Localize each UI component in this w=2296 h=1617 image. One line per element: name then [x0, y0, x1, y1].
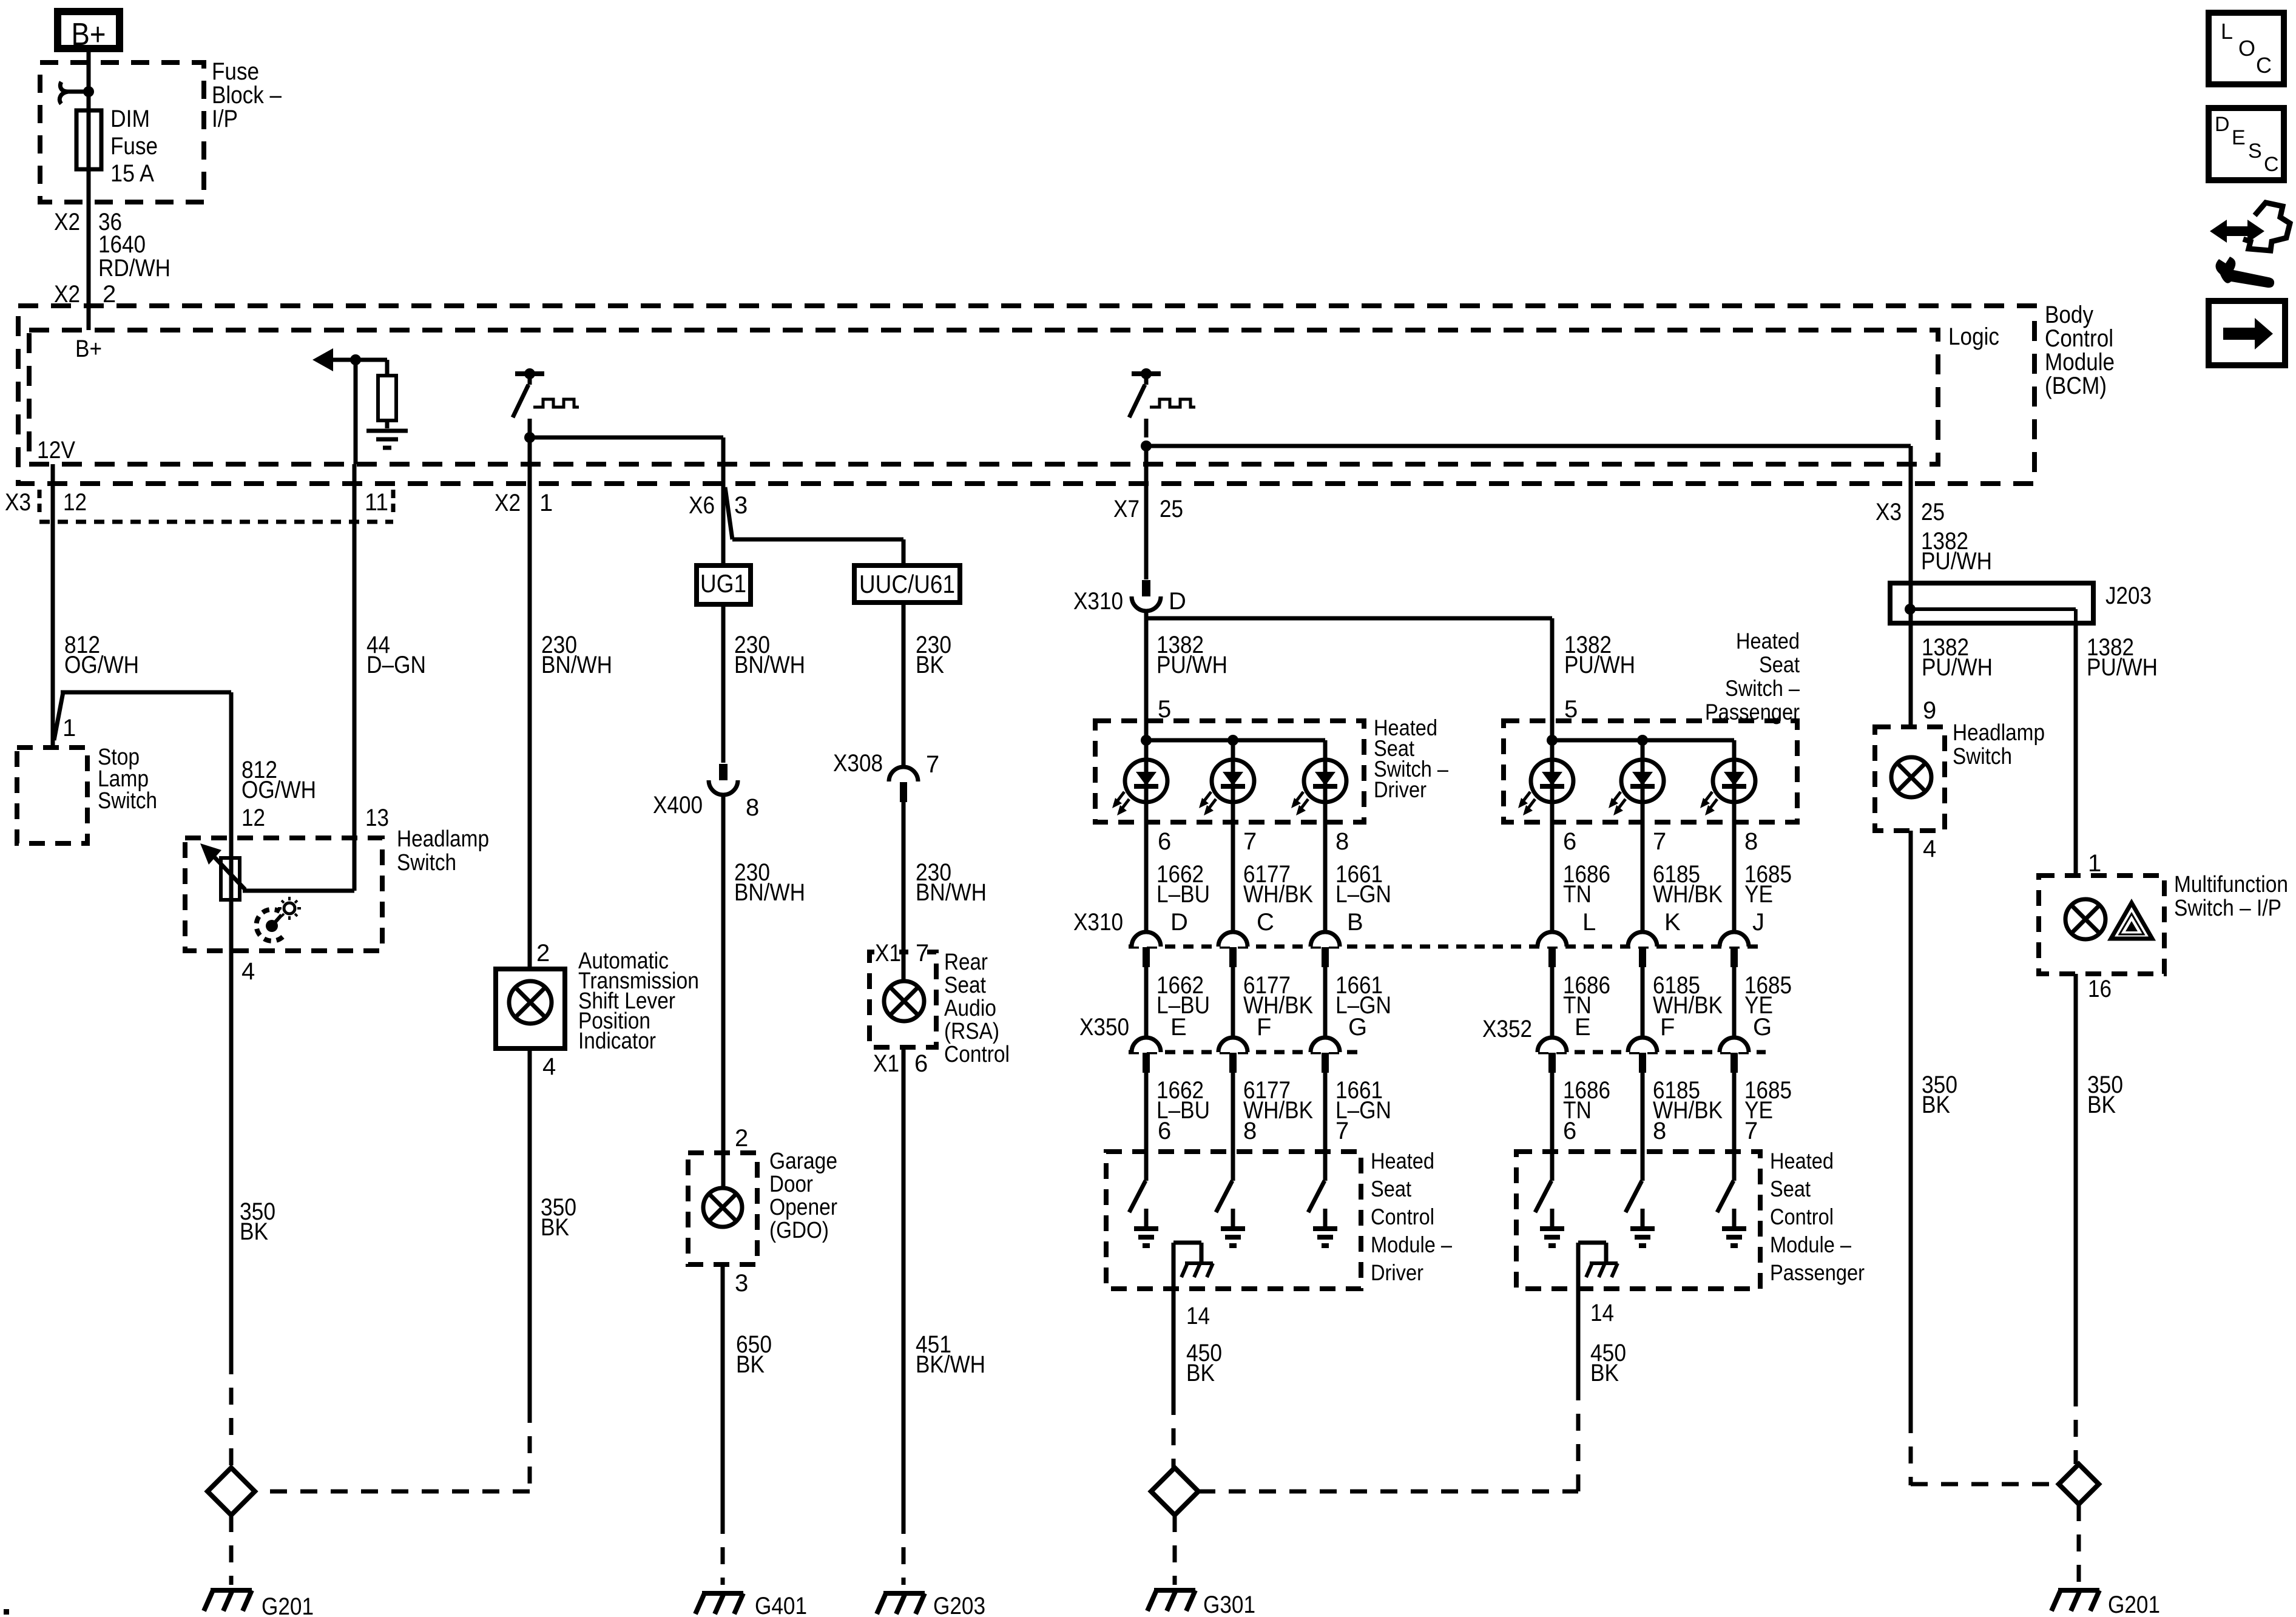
connector X352-G [1720, 1038, 1749, 1073]
connector X310 row labels pass [1582, 909, 1764, 936]
wires X310 to X352 [1552, 967, 1734, 1038]
splice S201-left diamond [208, 1468, 255, 1515]
svg-text:X310: X310 [1073, 588, 1123, 615]
connector X310-C [1218, 932, 1248, 967]
connector X350-F [1218, 1038, 1248, 1073]
in-line connector X310 D [1073, 580, 1186, 615]
svg-text:8: 8 [1243, 1118, 1257, 1144]
wire label 1640 RD/WH [98, 231, 171, 282]
pin label 16 [2088, 976, 2112, 1002]
svg-text:6: 6 [1563, 828, 1576, 855]
wire label 230 BK [916, 632, 951, 678]
LED driver 1 [1112, 760, 1167, 815]
svg-text:L: L [2221, 19, 2233, 44]
svg-text:Headlamp: Headlamp [397, 826, 489, 852]
connector X352-F [1628, 1038, 1657, 1073]
connector X310 row labels [1073, 909, 1363, 936]
svg-text:15 A: 15 A [110, 160, 154, 187]
wire bus in passenger switch [1552, 721, 1734, 760]
svg-text:7: 7 [1744, 1118, 1758, 1144]
resistor inside BCM [378, 360, 396, 428]
wire through pot [229, 838, 234, 951]
label Body Control Module (BCM) [2045, 302, 2115, 399]
Headlamp Switch illumination dashed box [1875, 727, 1945, 831]
label Heated Seat Switch - Driver [1374, 715, 1448, 802]
svg-text:Control: Control [1371, 1204, 1434, 1229]
pin label 14 pass [1590, 1300, 1614, 1326]
ground G203 [877, 1593, 985, 1617]
svg-text:BK: BK [240, 1218, 268, 1245]
junction node X7-25 [1141, 441, 1152, 451]
wire pin 11 to dimmer wiper [353, 464, 357, 891]
wire label 1686 TN c [1563, 1077, 1610, 1124]
label ATSLPI [578, 948, 699, 1054]
splice pack J203 [1890, 582, 2152, 623]
svg-text:Switch –: Switch – [1725, 676, 1800, 701]
svg-text:E: E [2232, 126, 2246, 149]
svg-text:7: 7 [926, 751, 939, 778]
wire X400 to GDO [721, 795, 726, 1189]
lamp in RSA [884, 981, 924, 1021]
option box UUC/U61 [854, 565, 960, 603]
wire label 812 OG/WH [64, 632, 139, 678]
wire fuse to BCM [87, 169, 91, 330]
pin label 4 (ATSLPI) [542, 1053, 556, 1080]
wire bus to X3-25 pin [1146, 446, 1911, 484]
svg-text:G201: G201 [262, 1593, 314, 1617]
Heated Seat Switch - Driver dashed box [1095, 721, 1364, 822]
pin label 1 mfs [2088, 850, 2101, 877]
Heated Seat Control Module - Passenger dashed box [1516, 1152, 1760, 1289]
wire UG1 to X400 [721, 607, 726, 763]
svg-text:Heated: Heated [1770, 1149, 1834, 1173]
connector X350-G [1311, 1038, 1340, 1073]
svg-text:BK: BK [1922, 1092, 1950, 1118]
svg-text:1640: 1640 [98, 231, 146, 258]
Headlamp Switch dashed box [185, 838, 382, 951]
pin label 3 (GDO) [735, 1270, 748, 1297]
svg-text:12V: 12V [37, 437, 75, 464]
pin labels 6 7 8 drv [1158, 828, 1349, 855]
Garage Door Opener dashed box [688, 1153, 757, 1264]
wire label 1661 L-GN c [1335, 1077, 1391, 1124]
pin label 12 [241, 805, 265, 831]
junction dots driver switch [1141, 735, 1238, 746]
pin label X2 1 [495, 490, 553, 516]
wire headlamp switch to splice right [1909, 831, 1913, 1485]
svg-text:7: 7 [1653, 828, 1666, 855]
svg-text:OG/WH: OG/WH [64, 652, 139, 678]
dimmer dial icon [256, 897, 301, 941]
pin label 4 hls [1923, 836, 1936, 862]
B+ battery feed box [58, 12, 120, 52]
svg-text:Indicator: Indicator [578, 1028, 656, 1054]
DESC icon box [2209, 108, 2284, 180]
pin label X1 7 [874, 940, 929, 967]
ground G401 [695, 1593, 807, 1617]
BCM Logic inner dashed box [29, 330, 1938, 464]
wire label 1686 TN a [1563, 861, 1610, 908]
wire label 1661 L-GN a [1335, 861, 1391, 908]
svg-text:X3: X3 [5, 489, 31, 516]
svg-text:Body: Body [2045, 302, 2093, 328]
wire label 44 D-GN [366, 632, 426, 678]
wire X308 to RSA [902, 802, 906, 981]
svg-text:6: 6 [1158, 828, 1171, 855]
wire label 1382 PU/WH hls [1922, 634, 1993, 681]
hazard triangle icon [2111, 903, 2152, 939]
pin label 14 drv [1186, 1303, 1210, 1329]
module drv internal ground [1173, 1243, 1213, 1277]
svg-text:X1: X1 [875, 940, 901, 967]
wire label 650 BK [736, 1331, 772, 1378]
connector X350 row labels [1079, 1014, 1367, 1041]
svg-text:B+: B+ [72, 17, 106, 52]
svg-text:TN: TN [1563, 881, 1592, 908]
svg-text:Control: Control [944, 1042, 1010, 1067]
svg-text:1: 1 [2088, 850, 2101, 877]
lamp in ATSLPI [509, 981, 552, 1024]
svg-text:G203: G203 [933, 1593, 985, 1617]
wire X3-25 to J203 [1909, 484, 1913, 583]
dashed wire to right diamond [1911, 1482, 2059, 1487]
svg-text:Seat: Seat [1770, 1176, 1811, 1201]
svg-text:X7: X7 [1113, 496, 1140, 522]
wire ATSLPI to splice [528, 1048, 532, 1484]
wire X310-D down [1144, 612, 1149, 721]
svg-text:J: J [1752, 909, 1764, 936]
svg-text:RD/WH: RD/WH [98, 255, 171, 282]
pin label 5 drv [1158, 696, 1171, 723]
svg-text:G401: G401 [755, 1593, 807, 1617]
svg-text:12: 12 [241, 805, 265, 831]
svg-text:WH/BK: WH/BK [1243, 881, 1313, 908]
connector X310-B [1311, 932, 1340, 967]
pin label X2 2 [54, 281, 116, 308]
splice S301 diamond [1151, 1468, 1198, 1515]
wire RSA to ground [902, 1047, 906, 1585]
svg-text:D: D [1170, 909, 1188, 936]
svg-text:9: 9 [1923, 697, 1936, 724]
pin label 9 [1923, 697, 1936, 724]
svg-text:Headlamp: Headlamp [1953, 720, 2045, 746]
svg-text:X2: X2 [495, 490, 521, 516]
svg-text:C: C [1257, 909, 1274, 936]
svg-text:WH/BK: WH/BK [1653, 881, 1723, 908]
svg-text:3: 3 [734, 492, 748, 519]
connector X310-J [1720, 932, 1749, 967]
pin labels 6 7 8 pass [1563, 828, 1758, 855]
svg-text:12: 12 [63, 489, 87, 516]
svg-text:D: D [1169, 588, 1186, 615]
in-line connector X400 pin 8 [653, 764, 759, 821]
svg-text:Audio: Audio [944, 996, 996, 1021]
LOC icon box [2209, 13, 2284, 84]
wire X7-25 to X310-D [1144, 484, 1149, 579]
svg-text:X308: X308 [833, 750, 883, 777]
svg-text:PU/WH: PU/WH [1922, 654, 1993, 681]
svg-text:Logic: Logic [1948, 323, 1999, 350]
wire label 1662 L-BU a [1156, 861, 1210, 908]
svg-text:BK: BK [2087, 1092, 2116, 1118]
lamp in multifunction switch [2065, 899, 2105, 939]
wires LEDs to pins pass [1552, 802, 1734, 932]
svg-text:Switch: Switch [98, 788, 157, 814]
lamp in headlamp switch [1891, 757, 1931, 797]
wire label 230 BN/WH col3 [734, 632, 805, 678]
wire label 6185 WH/BK b [1653, 972, 1723, 1019]
wire label 350 BK col2 [541, 1194, 576, 1241]
svg-text:Switch – I/P: Switch – I/P [2174, 896, 2281, 921]
arrow output inside BCM [312, 348, 387, 371]
Heated Seat Switch - Passenger dashed box [1504, 721, 1797, 822]
wire label 350 BK [240, 1198, 275, 1245]
wire label 1382 PU/WH mfs [2087, 634, 2158, 681]
svg-text:BK: BK [736, 1351, 765, 1378]
wire label 812 OG/WH second [241, 757, 316, 803]
wire label 6177 WH/BK b [1243, 972, 1313, 1019]
svg-text:Module: Module [2045, 349, 2115, 376]
module pass internal ground [1578, 1243, 1618, 1277]
svg-text:BN/WH: BN/WH [916, 879, 987, 906]
svg-text:G: G [1753, 1014, 1772, 1041]
svg-text:(RSA): (RSA) [944, 1019, 999, 1044]
wire label 1382 PU/WH pass [1564, 632, 1635, 678]
svg-text:2: 2 [735, 1125, 748, 1152]
svg-text:1: 1 [539, 490, 553, 516]
pin labels 6 8 7 pass module [1563, 1118, 1758, 1144]
svg-text:D–GN: D–GN [366, 652, 426, 678]
fuse DIM 15A [76, 110, 101, 169]
svg-text:D: D [2215, 113, 2230, 136]
svg-text:Door: Door [769, 1172, 813, 1197]
wire J203 to headlamp switch [1909, 623, 1913, 727]
label Stop Lamp Switch [98, 744, 157, 814]
ground inside BCM [366, 431, 408, 448]
switch S2 in BCM (backlight output) [1129, 368, 1195, 437]
svg-text:F: F [1660, 1014, 1675, 1041]
label HSCM Driver [1371, 1149, 1452, 1285]
svg-text:WH/BK: WH/BK [1243, 992, 1313, 1019]
svg-text:X3: X3 [1876, 499, 1902, 525]
svg-text:OG/WH: OG/WH [241, 777, 316, 803]
junction dots passenger switch [1547, 735, 1648, 746]
wire label 1685 YE a [1744, 861, 1792, 908]
wire bus in driver switch [1146, 721, 1325, 760]
svg-text:Opener: Opener [769, 1195, 837, 1220]
svg-text:I/P: I/P [212, 106, 238, 132]
connector X310-K [1628, 932, 1657, 967]
svg-text:Module –: Module – [1770, 1232, 1851, 1257]
wire jog to stop lamp switch pin 1 [54, 692, 63, 740]
svg-text:BK: BK [1186, 1360, 1215, 1386]
Automatic Transmission Shift Lever Position Indicator box [496, 969, 565, 1048]
svg-text:4: 4 [542, 1053, 556, 1080]
label Logic [1948, 323, 1999, 350]
svg-text:Seat: Seat [944, 973, 986, 998]
svg-text:(GDO): (GDO) [769, 1218, 829, 1243]
svg-text:8: 8 [1335, 828, 1349, 855]
label HSCM Passenger [1770, 1149, 1865, 1285]
ground G201 left [204, 1590, 314, 1617]
wire J203 to multifunction [2074, 623, 2078, 876]
label Garage Door Opener (GDO) [769, 1149, 837, 1243]
Rear Seat Audio dashed box [869, 952, 936, 1047]
svg-text:6: 6 [914, 1050, 928, 1077]
dashed wire diamond to ground [229, 1515, 234, 1585]
wire module drv pin 14 [1172, 1243, 1176, 1468]
svg-text:B: B [1347, 909, 1363, 936]
svg-text:PU/WH: PU/WH [1921, 548, 1992, 575]
pin label 2 (ATSLPI) [536, 940, 550, 967]
pin label 13 [365, 805, 389, 831]
LED driver 2 [1199, 760, 1254, 815]
wire label 230 BN/WH col3b [734, 859, 805, 906]
wire label 230 BN/WH col4 [916, 859, 987, 906]
svg-text:BN/WH: BN/WH [734, 652, 805, 678]
pin labels 6 8 7 drv module [1158, 1118, 1349, 1144]
GoTo arrow icon box [2209, 301, 2285, 365]
wire label 1686 TN b [1563, 972, 1610, 1019]
svg-text:L–BU: L–BU [1156, 881, 1210, 908]
svg-text:6: 6 [1563, 1118, 1576, 1144]
svg-text:BK/WH: BK/WH [916, 1351, 985, 1378]
Stop Lamp Switch dashed box [17, 748, 87, 843]
svg-text:3: 3 [735, 1270, 748, 1297]
svg-text:Block –: Block – [212, 82, 282, 109]
wires LEDs to pins drv [1146, 802, 1325, 932]
lamp in GDO [703, 1188, 742, 1227]
junction node X2-1 [524, 432, 535, 443]
wire label 350 BK mfs [2087, 1072, 2123, 1118]
svg-text:BK: BK [1590, 1360, 1619, 1386]
svg-text:X1: X1 [873, 1050, 899, 1077]
LED passenger 3 [1700, 760, 1755, 815]
pin label 2 (GDO) [735, 1125, 748, 1152]
wire bus to X6 pin [530, 437, 723, 464]
wires X310 to X350 drv [1146, 967, 1325, 1038]
svg-text:PU/WH: PU/WH [1564, 652, 1635, 678]
wire node to pin 11 [354, 360, 358, 464]
svg-text:X400: X400 [653, 792, 703, 819]
node B+ label inside BCM [75, 336, 102, 362]
pin label X7 25 [1113, 496, 1183, 522]
svg-text:S: S [2248, 140, 2262, 163]
connector X350-E [1132, 1038, 1161, 1073]
svg-text:L: L [1582, 909, 1596, 936]
svg-text:BN/WH: BN/WH [734, 879, 805, 906]
svg-text:Heated: Heated [1736, 629, 1800, 653]
svg-text:2: 2 [103, 281, 116, 308]
wire branch X6-3 to UUC [725, 487, 903, 563]
svg-text:16: 16 [2088, 976, 2112, 1002]
svg-text:Seat: Seat [1759, 652, 1800, 677]
svg-text:Multifunction: Multifunction [2174, 872, 2288, 897]
svg-text:11: 11 [365, 489, 388, 516]
splice right diamond [2059, 1464, 2099, 1504]
svg-text:E: E [1170, 1014, 1187, 1041]
wire label 450 BK drv [1186, 1340, 1222, 1386]
svg-text:X310: X310 [1073, 909, 1123, 936]
svg-text:Fuse: Fuse [110, 133, 158, 160]
svg-text:F: F [1257, 1014, 1271, 1041]
pin label 11 [365, 489, 388, 516]
svg-text:PU/WH: PU/WH [1156, 652, 1227, 678]
ground G201 right [2051, 1590, 2160, 1617]
svg-text:7: 7 [1243, 828, 1257, 855]
connector strip X3 [39, 490, 393, 522]
svg-text:13: 13 [365, 805, 389, 831]
svg-text:C: C [2256, 53, 2272, 78]
connector X310-L [1538, 932, 1567, 967]
wires X350 to module drv [1146, 1073, 1325, 1152]
svg-text:J203: J203 [2105, 582, 2152, 609]
label Headlamp Switch right [1953, 720, 2045, 769]
wire headlamp switch to splice [229, 951, 234, 1468]
pin label X1 6 [873, 1050, 928, 1077]
wiper wire [243, 889, 354, 893]
Heated Seat Control Module - Driver dashed box [1106, 1152, 1361, 1289]
label DIM Fuse 15 A [110, 106, 158, 187]
switch in module drv 1 [1129, 1152, 1158, 1246]
switch in module pass 2 [1626, 1152, 1655, 1246]
connector strip X350 [1129, 1050, 1365, 1055]
svg-text:7: 7 [1335, 1118, 1349, 1144]
dashed wire to G201 splice [257, 1490, 530, 1494]
LED driver 3 [1291, 760, 1346, 815]
potentiometer (dimmer rheostat) [200, 843, 245, 900]
pin label X6 3 [689, 492, 748, 519]
LED passenger 1 [1518, 760, 1573, 815]
svg-text:Driver: Driver [1374, 777, 1427, 802]
svg-text:Seat: Seat [1371, 1176, 1412, 1201]
svg-text:Fuse: Fuse [212, 58, 259, 85]
svg-text:BN/WH: BN/WH [541, 652, 612, 678]
svg-text:BK: BK [916, 652, 944, 678]
svg-text:6: 6 [1158, 1118, 1171, 1144]
switch in module pass 1 [1535, 1152, 1564, 1246]
wire module pass pin 14 [1576, 1243, 1581, 1389]
wire switch to X7-25 exit [1144, 446, 1149, 484]
svg-text:Rear: Rear [944, 950, 988, 975]
wires X352 to module pass [1552, 1073, 1734, 1152]
connector X352 row labels [1482, 1014, 1772, 1042]
wire label 451 BK/WH [916, 1331, 985, 1378]
svg-text:1: 1 [62, 715, 76, 741]
wire X2-1 to indicator [528, 484, 532, 969]
svg-text:Switch: Switch [397, 850, 456, 876]
wire label 1662 L-BU b [1156, 972, 1210, 1019]
switch in module drv 2 [1216, 1152, 1245, 1246]
label Fuse Block - I/P [212, 58, 282, 132]
svg-text:X350: X350 [1079, 1014, 1129, 1041]
svg-text:E: E [1575, 1014, 1591, 1041]
svg-text:Module –: Module – [1371, 1232, 1452, 1257]
Fuse Block - I/P dashed box [40, 62, 204, 202]
svg-text:G301: G301 [1203, 1592, 1255, 1617]
svg-text:YE: YE [1744, 881, 1773, 908]
svg-text:UG1: UG1 [700, 569, 746, 598]
svg-text:(BCM): (BCM) [2045, 373, 2107, 399]
wire B+ to fuse [87, 49, 91, 110]
wire switch to X2-1 exit [528, 437, 532, 484]
svg-text:K: K [1664, 909, 1681, 936]
wire label 350 BK hls [1922, 1072, 1957, 1118]
dashed wire splice to G301 [1173, 1515, 1177, 1585]
label Headlamp Switch [397, 826, 489, 876]
switch in module drv 3 [1308, 1152, 1337, 1246]
in-line connector X308 pin 7 [833, 750, 939, 802]
